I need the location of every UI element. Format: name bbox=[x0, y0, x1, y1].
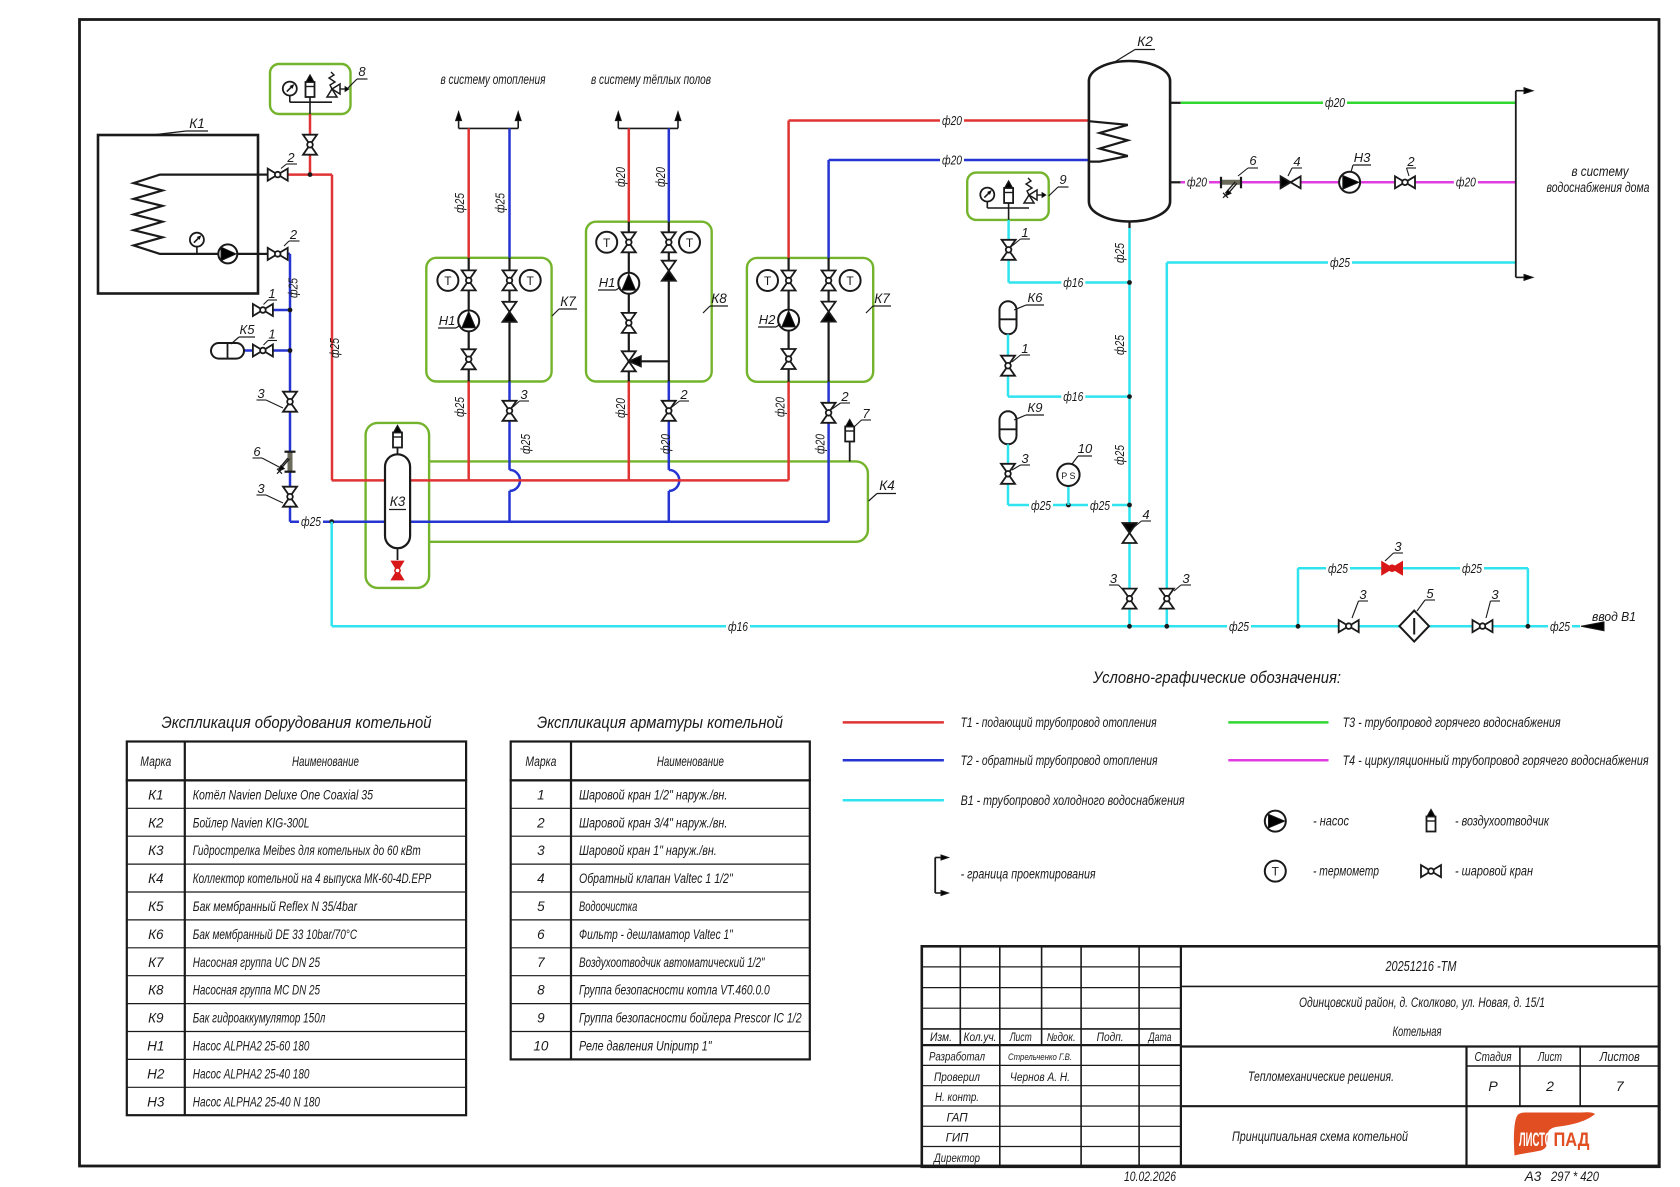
svg-text:10.02.2026: 10.02.2026 bbox=[1124, 1169, 1176, 1184]
svg-text:6: 6 bbox=[537, 927, 545, 942]
svg-text:ПАД: ПАД bbox=[1554, 1130, 1590, 1151]
svg-text:3: 3 bbox=[537, 843, 545, 858]
svg-text:1: 1 bbox=[1021, 225, 1028, 240]
svg-text:в систему отопления: в систему отопления bbox=[441, 72, 546, 87]
svg-text:2: 2 bbox=[286, 150, 295, 165]
svg-text:ввод В1: ввод В1 bbox=[1592, 610, 1636, 624]
svg-text:9: 9 bbox=[1059, 172, 1066, 187]
svg-text:6: 6 bbox=[1249, 153, 1257, 168]
svg-text:Т: Т bbox=[764, 274, 772, 288]
svg-text:ф20: ф20 bbox=[942, 152, 963, 167]
svg-text:ф20: ф20 bbox=[613, 397, 628, 418]
svg-text:К2: К2 bbox=[148, 815, 164, 830]
svg-text:К8: К8 bbox=[711, 291, 727, 306]
svg-text:Насос ALPHA2 25-40 N 180: Насос ALPHA2 25-40 N 180 bbox=[193, 1094, 321, 1109]
svg-text:Лист: Лист bbox=[1009, 1032, 1032, 1044]
svg-text:7: 7 bbox=[862, 406, 870, 421]
svg-text:1: 1 bbox=[268, 327, 275, 342]
svg-text:ф20: ф20 bbox=[658, 433, 673, 454]
svg-text:- граница проектирования: - граница проектирования bbox=[961, 867, 1096, 882]
svg-text:Т: Т bbox=[603, 236, 611, 250]
svg-text:1: 1 bbox=[268, 286, 275, 301]
svg-text:ГАП: ГАП bbox=[946, 1112, 968, 1124]
svg-text:Т: Т bbox=[527, 274, 535, 288]
svg-text:К5: К5 bbox=[148, 899, 164, 914]
svg-text:Насос ALPHA2 25-60 180: Насос ALPHA2 25-60 180 bbox=[193, 1038, 310, 1053]
svg-text:1: 1 bbox=[1021, 341, 1028, 356]
svg-text:К3: К3 bbox=[390, 494, 406, 509]
svg-text:ф20: ф20 bbox=[1187, 175, 1208, 190]
svg-text:К6: К6 bbox=[1028, 290, 1044, 305]
svg-text:К1: К1 bbox=[189, 116, 204, 131]
svg-text:Проверил: Проверил bbox=[934, 1072, 980, 1084]
svg-text:4: 4 bbox=[1293, 154, 1300, 169]
svg-text:ф25: ф25 bbox=[1112, 444, 1127, 465]
svg-text:Т: Т bbox=[846, 274, 854, 288]
svg-text:К9: К9 bbox=[148, 1011, 164, 1026]
svg-text:Марка: Марка bbox=[525, 754, 556, 769]
svg-text:Одинцовский район, д. Сколково: Одинцовский район, д. Сколково, ул. Нова… bbox=[1299, 995, 1545, 1010]
svg-text:3: 3 bbox=[257, 386, 265, 401]
svg-text:Кол.уч.: Кол.уч. bbox=[964, 1032, 997, 1044]
svg-text:2: 2 bbox=[1406, 154, 1415, 169]
svg-text:ф25: ф25 bbox=[518, 433, 533, 454]
svg-text:Н3: Н3 bbox=[147, 1094, 165, 1109]
svg-text:3: 3 bbox=[1491, 587, 1499, 602]
svg-text:А3: А3 bbox=[1524, 1169, 1542, 1184]
svg-text:ф25: ф25 bbox=[1229, 619, 1250, 634]
svg-text:Тепломеханические решения.: Тепломеханические решения. bbox=[1248, 1069, 1394, 1084]
svg-text:Н1: Н1 bbox=[439, 313, 456, 328]
svg-text:Экспликация оборудования котел: Экспликация оборудования котельной bbox=[162, 714, 432, 732]
svg-text:Марка: Марка bbox=[140, 754, 171, 769]
svg-text:Изм.: Изм. bbox=[930, 1032, 952, 1044]
svg-text:Экспликация арматуры котельной: Экспликация арматуры котельной bbox=[537, 714, 783, 732]
svg-text:3: 3 bbox=[1110, 571, 1118, 586]
svg-text:Н1: Н1 bbox=[599, 275, 616, 290]
svg-text:К1: К1 bbox=[148, 787, 163, 802]
svg-text:ф25: ф25 bbox=[1112, 242, 1127, 263]
svg-text:Разработал: Разработал bbox=[929, 1052, 985, 1064]
svg-text:Водоочистка: Водоочистка bbox=[579, 899, 638, 914]
svg-text:ф25: ф25 bbox=[1090, 498, 1111, 513]
svg-text:Чернов А. Н.: Чернов А. Н. bbox=[1010, 1072, 1070, 1084]
svg-text:- насос: - насос bbox=[1313, 814, 1349, 829]
svg-text:К7: К7 bbox=[560, 294, 576, 309]
svg-text:Т3 - трубопровод горячего водо: Т3 - трубопровод горячего водоснабжения bbox=[1343, 715, 1561, 730]
svg-text:Стрельченко Г.В.: Стрельченко Г.В. bbox=[1008, 1052, 1072, 1063]
svg-text:Лист: Лист bbox=[1537, 1050, 1562, 1064]
svg-text:- термометр: - термометр bbox=[1313, 864, 1379, 879]
svg-text:ф20: ф20 bbox=[1325, 95, 1346, 110]
svg-text:Подп.: Подп. bbox=[1097, 1032, 1124, 1044]
svg-text:ф25: ф25 bbox=[286, 277, 301, 298]
svg-text:Реле давления Unipump 1": Реле давления Unipump 1" bbox=[579, 1038, 712, 1053]
svg-text:ЛИСТО: ЛИСТО bbox=[1519, 1130, 1552, 1151]
svg-text:7: 7 bbox=[1616, 1078, 1625, 1094]
svg-text:Обратный клапан Valtec 1 1/2": Обратный клапан Valtec 1 1/2" bbox=[579, 871, 734, 886]
svg-text:20251216 -ТМ: 20251216 -ТМ bbox=[1385, 959, 1457, 975]
svg-text:Принципиальная схема котельно: Принципиальная схема котельной bbox=[1232, 1129, 1408, 1144]
svg-text:2: 2 bbox=[679, 387, 688, 402]
svg-text:В1 - трубопровод холодного вод: В1 - трубопровод холодного водоснабжения bbox=[961, 793, 1185, 808]
svg-text:Фильтр - дешламатор Valtec 1": Фильтр - дешламатор Valtec 1" bbox=[579, 927, 734, 942]
svg-text:2: 2 bbox=[840, 389, 849, 404]
svg-text:10: 10 bbox=[533, 1038, 549, 1053]
svg-text:К8: К8 bbox=[148, 983, 164, 998]
svg-text:ф20: ф20 bbox=[942, 113, 963, 128]
svg-text:Р: Р bbox=[1488, 1078, 1498, 1094]
svg-text:ф25: ф25 bbox=[493, 192, 508, 213]
svg-text:ф20: ф20 bbox=[773, 396, 788, 417]
svg-text:- шаровой кран: - шаровой кран bbox=[1455, 864, 1533, 879]
svg-text:ГИП: ГИП bbox=[946, 1133, 969, 1145]
svg-text:3: 3 bbox=[1182, 571, 1190, 586]
svg-text:7: 7 bbox=[537, 955, 545, 970]
svg-text:Стадия: Стадия bbox=[1475, 1050, 1512, 1064]
svg-text:Н. контр.: Н. контр. bbox=[935, 1092, 979, 1104]
svg-text:ф20: ф20 bbox=[813, 433, 828, 454]
svg-text:Н3: Н3 bbox=[1354, 150, 1371, 165]
svg-text:Коллектор котельной на 4 выпус: Коллектор котельной на 4 выпуска МК-60-4… bbox=[193, 871, 431, 886]
svg-text:ф20: ф20 bbox=[653, 166, 668, 187]
svg-text:Котельная: Котельная bbox=[1393, 1024, 1442, 1039]
svg-text:ф25: ф25 bbox=[1330, 255, 1351, 270]
svg-text:ф16: ф16 bbox=[1063, 389, 1084, 404]
svg-text:Бак гидроаккумулятор 150л: Бак гидроаккумулятор 150л bbox=[193, 1011, 326, 1026]
svg-text:К7: К7 bbox=[148, 955, 164, 970]
svg-text:ф25: ф25 bbox=[327, 337, 342, 358]
svg-text:5: 5 bbox=[537, 899, 545, 914]
svg-text:К5: К5 bbox=[240, 322, 256, 337]
svg-text:К2: К2 bbox=[1137, 34, 1153, 49]
svg-text:ф25: ф25 bbox=[1031, 498, 1052, 513]
svg-text:Насосная группа UC DN 25: Насосная группа UC DN 25 bbox=[193, 955, 321, 970]
svg-text:К9: К9 bbox=[1028, 400, 1043, 415]
svg-text:8: 8 bbox=[537, 983, 545, 998]
svg-text:- воздухоотводчик: - воздухоотводчик bbox=[1455, 814, 1549, 829]
svg-text:Условно-графические обозначени: Условно-графические обозначения: bbox=[1092, 668, 1341, 687]
svg-text:Воздухоотводчик автоматический: Воздухоотводчик автоматический 1/2" bbox=[579, 955, 765, 970]
svg-text:ф25: ф25 bbox=[1112, 334, 1127, 355]
svg-text:№док.: №док. bbox=[1047, 1032, 1076, 1044]
svg-text:Шаровой кран 3/4" наруж./вн.: Шаровой кран 3/4" наруж./вн. bbox=[579, 815, 727, 830]
svg-text:Т: Т bbox=[444, 274, 452, 288]
svg-text:10: 10 bbox=[1078, 441, 1093, 456]
svg-text:Н2: Н2 bbox=[147, 1066, 165, 1081]
svg-text:Листов: Листов bbox=[1599, 1050, 1640, 1064]
svg-text:Шаровой кран 1/2" наруж./вн.: Шаровой кран 1/2" наруж./вн. bbox=[579, 787, 727, 802]
svg-text:Котёл Navien Deluxe One Coaxia: Котёл Navien Deluxe One Coaxial 35 bbox=[193, 787, 374, 802]
svg-text:Н1: Н1 bbox=[147, 1038, 164, 1053]
svg-text:К4: К4 bbox=[879, 478, 894, 493]
svg-text:ф25: ф25 bbox=[301, 514, 322, 529]
svg-text:в систему: в систему bbox=[1572, 164, 1630, 179]
svg-text:Бойлер Navien KIG-300L: Бойлер Navien KIG-300L bbox=[193, 815, 310, 830]
svg-text:Наименование: Наименование bbox=[657, 754, 724, 769]
svg-text:в систему тёплых полов: в систему тёплых полов bbox=[591, 72, 711, 87]
svg-text:2: 2 bbox=[1545, 1078, 1554, 1094]
svg-text:9: 9 bbox=[537, 1011, 545, 1026]
svg-text:водоснабжения дома: водоснабжения дома bbox=[1547, 180, 1650, 195]
svg-text:Насос ALPHA2 25-40 180: Насос ALPHA2 25-40 180 bbox=[193, 1066, 310, 1081]
svg-text:3: 3 bbox=[1394, 539, 1402, 554]
svg-text:4: 4 bbox=[1142, 507, 1149, 522]
svg-text:Т4 - циркуляционный трубопрово: Т4 - циркуляционный трубопровод горячего… bbox=[1343, 753, 1649, 768]
svg-text:Т: Т bbox=[686, 236, 694, 250]
svg-text:5: 5 bbox=[1426, 586, 1434, 601]
svg-text:К3: К3 bbox=[148, 843, 164, 858]
svg-text:Наименование: Наименование bbox=[292, 754, 359, 769]
svg-text:Бак мембранный DE 33 10bar/70°: Бак мембранный DE 33 10bar/70°С bbox=[193, 927, 357, 942]
svg-text:Директор: Директор bbox=[932, 1153, 980, 1165]
svg-text:ф20: ф20 bbox=[1456, 175, 1477, 190]
svg-text:2: 2 bbox=[289, 227, 298, 242]
svg-text:Т1 - подающий трубопровод отоп: Т1 - подающий трубопровод отопления bbox=[961, 715, 1157, 730]
svg-text:3: 3 bbox=[1021, 451, 1029, 466]
svg-text:1: 1 bbox=[537, 787, 545, 802]
svg-text:4: 4 bbox=[537, 871, 545, 886]
svg-text:8: 8 bbox=[358, 64, 366, 79]
svg-text:Насосная группа MC DN 25: Насосная группа MC DN 25 bbox=[193, 983, 321, 998]
svg-text:ф25: ф25 bbox=[1550, 619, 1571, 634]
svg-text:2: 2 bbox=[536, 815, 545, 830]
svg-text:Бак мембранный Reflex N 35/4ba: Бак мембранный Reflex N 35/4bar bbox=[193, 899, 358, 914]
svg-text:ф16: ф16 bbox=[1063, 275, 1084, 290]
svg-text:Дата: Дата bbox=[1147, 1032, 1172, 1044]
svg-text:ф16: ф16 bbox=[728, 619, 749, 634]
svg-text:6: 6 bbox=[253, 444, 261, 459]
svg-text:Т2 - обратный трубопровод отоп: Т2 - обратный трубопровод отопления bbox=[961, 753, 1158, 768]
svg-text:297 * 420: 297 * 420 bbox=[1550, 1169, 1599, 1184]
svg-text:ф20: ф20 bbox=[613, 166, 628, 187]
svg-text:ф25: ф25 bbox=[452, 396, 467, 417]
svg-text:ф25: ф25 bbox=[452, 192, 467, 213]
svg-text:К4: К4 bbox=[148, 871, 163, 886]
svg-text:Шаровой кран 1" наруж./вн.: Шаровой кран 1" наруж./вн. bbox=[579, 843, 717, 858]
svg-text:ф25: ф25 bbox=[1328, 561, 1349, 576]
svg-text:К7: К7 bbox=[874, 291, 890, 306]
svg-text:Группа безопасности бойлера Pr: Группа безопасности бойлера Prescor IC 1… bbox=[579, 1011, 802, 1026]
svg-text:3: 3 bbox=[257, 481, 265, 496]
svg-text:Н2: Н2 bbox=[759, 312, 776, 327]
svg-text:3: 3 bbox=[1359, 587, 1367, 602]
svg-text:3: 3 bbox=[520, 387, 528, 402]
svg-text:P S: P S bbox=[1061, 471, 1075, 481]
svg-text:Группа безопасности котла VT.4: Группа безопасности котла VT.460.0.0 bbox=[579, 983, 770, 998]
svg-text:К6: К6 bbox=[148, 927, 164, 942]
svg-text:Т: Т bbox=[1272, 865, 1280, 879]
svg-text:ф25: ф25 bbox=[1462, 561, 1483, 576]
svg-text:Гидрострелка Meibes для котель: Гидрострелка Meibes для котельных до 60 … bbox=[193, 843, 421, 858]
